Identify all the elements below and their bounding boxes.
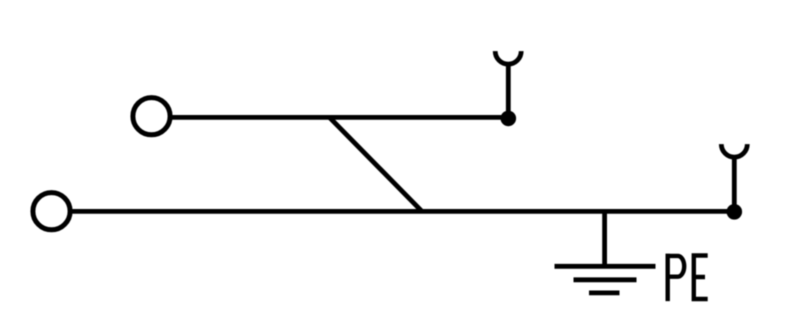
wire stem of top socket bbox=[506, 64, 511, 119]
wire bottom horizontal bbox=[71, 209, 735, 214]
junction dot node (right) bbox=[727, 204, 743, 220]
wire stem of right socket bbox=[732, 157, 737, 212]
ground symbol bar 2 bbox=[574, 277, 637, 282]
wire diagonal bridge bbox=[330, 117, 423, 211]
wire top horizontal bbox=[171, 115, 509, 120]
socket contact symbol (right) bbox=[721, 144, 747, 157]
ground symbol bar 1 bbox=[555, 264, 656, 269]
junction dot node (top) bbox=[501, 111, 517, 127]
terminal circle X1 (top left) bbox=[133, 98, 170, 135]
wire ground stem bbox=[602, 211, 607, 266]
terminal circle X2 (bottom left) bbox=[33, 193, 70, 230]
socket contact symbol (top) bbox=[495, 51, 521, 64]
ground symbol bar 3 bbox=[589, 290, 620, 295]
label PE bbox=[668, 254, 708, 302]
